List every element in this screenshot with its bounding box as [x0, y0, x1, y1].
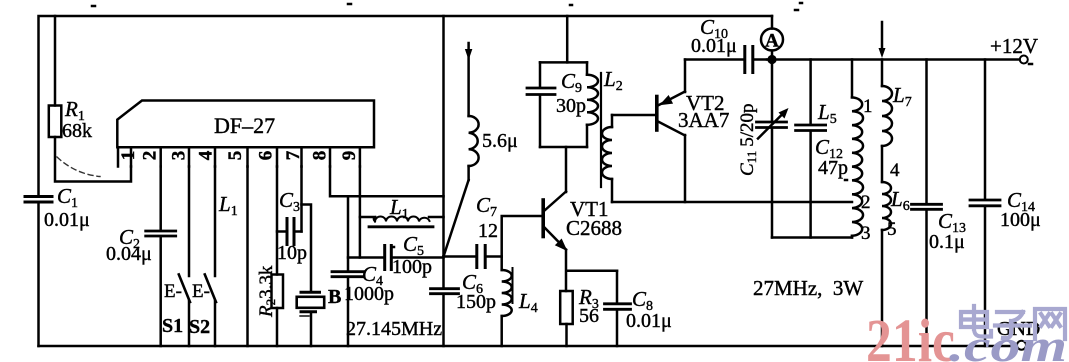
svg-text:0.01μ: 0.01μ: [626, 310, 672, 332]
svg-text:L5: L5: [817, 100, 837, 127]
resistor R3: [560, 291, 573, 324]
wire pin7 hook to crystal: [302, 205, 312, 292]
inductor L6: [882, 182, 891, 230]
wire L7 to L6, tap 4: [881, 146, 884, 182]
svg-text:21ic: 21ic: [866, 308, 955, 362]
svg-text:+12V: +12V: [990, 34, 1038, 58]
wire R1 to pin 1: [55, 137, 131, 182]
wire VT1 collector riser: [565, 147, 568, 192]
transformer L2 secondary: [611, 115, 614, 127]
IC DF-27 body: [117, 101, 374, 148]
svg-text:E-: E-: [164, 281, 182, 302]
wire crystal to ground: [310, 313, 313, 346]
wire ground bottom rail: [39, 345, 1017, 348]
svg-text:L1: L1: [389, 195, 409, 222]
svg-text:12: 12: [478, 220, 498, 242]
wire C7 node up to VT1 base: [502, 216, 542, 257]
wire L2 secondary to VT2 base: [612, 114, 655, 117]
node junction dot: [767, 55, 776, 64]
wire +12V rail: [767, 58, 1020, 61]
capacitor C11 variable: [771, 60, 774, 238]
wire VT1 emitter down: [566, 250, 617, 291]
wire C9/L2 tank top and bottom: [540, 62, 587, 147]
transistor VT1 C2688: [543, 192, 566, 251]
resistor R1: [49, 106, 62, 138]
svg-text:0.01μ: 0.01μ: [44, 209, 90, 231]
svg-text:C7: C7: [476, 193, 497, 220]
svg-text:10p: 10p: [277, 242, 307, 264]
wire pin 8 to tank top: [330, 167, 444, 257]
svg-text:9: 9: [339, 151, 360, 161]
wire top +12V rail from ammeter to left edge: [39, 16, 773, 195]
svg-text:3: 3: [168, 151, 189, 161]
svg-text:68k: 68k: [62, 120, 92, 142]
resistor R2: [272, 275, 284, 309]
svg-text:L4: L4: [518, 289, 538, 316]
svg-text:C2688: C2688: [566, 216, 622, 240]
svg-text:27MHz, 3W: 27MHz, 3W: [753, 276, 863, 300]
+12V terminal: [1020, 56, 1028, 64]
svg-text:L6: L6: [890, 187, 910, 214]
svg-text:E-: E-: [192, 281, 210, 302]
wire L6 to ground: [881, 230, 884, 346]
wire VT2 emitter riser to C10: [684, 60, 687, 93]
switch S2 arm: [205, 275, 216, 303]
transistor VT2 3AA7: [657, 92, 685, 136]
svg-text:30p: 30p: [556, 95, 586, 117]
capacitor C2: [146, 231, 176, 236]
capacitor C3: [277, 230, 302, 233]
svg-text:100μ: 100μ: [1000, 209, 1041, 231]
capacitor C14: [984, 60, 987, 347]
wire VT2 collector riser to output: [684, 135, 687, 202]
wire pin 7: [300, 167, 303, 232]
wire diagonal choke to tank node: [444, 180, 469, 257]
svg-text:C3: C3: [279, 188, 300, 215]
wire pin 2: [159, 167, 162, 347]
svg-text:S2: S2: [189, 316, 210, 338]
scan specks: [92, 3, 1032, 247]
capacitor C7: [444, 255, 502, 258]
svg-text:3AA7: 3AA7: [678, 108, 729, 132]
svg-text:B: B: [328, 286, 341, 308]
ammeter A: [761, 16, 783, 56]
svg-text:1: 1: [863, 96, 873, 117]
svg-text:0.04μ: 0.04μ: [106, 243, 152, 265]
svg-text:27.145MHz: 27.145MHz: [346, 318, 442, 340]
svg-text:S1: S1: [162, 315, 183, 337]
wire pin 3 lower: [188, 301, 191, 346]
svg-text:2: 2: [139, 151, 160, 161]
svg-text:A: A: [765, 31, 779, 52]
svg-text:4: 4: [890, 160, 900, 181]
svg-text:2: 2: [861, 192, 871, 213]
svg-text:C9: C9: [561, 69, 582, 96]
L4 core line: [512, 268, 514, 303]
inductor 5.6uH choke with feed arrow: [467, 43, 470, 116]
IC pin box dividers: [118, 147, 360, 166]
svg-text:0.01μ: 0.01μ: [691, 35, 737, 57]
svg-text:3: 3: [861, 223, 871, 244]
svg-text:L1: L1: [218, 192, 238, 219]
wire pin 6: [276, 167, 279, 347]
svg-text:L2: L2: [603, 67, 623, 94]
crystal B: [297, 292, 325, 316]
wire R3 to ground: [565, 324, 568, 346]
switch S1 arm: [179, 275, 190, 303]
inductor L5 tapped coil: [851, 60, 854, 98]
wire top rail riser to C9 tank: [566, 16, 569, 62]
wire L7 feed arrow: [881, 22, 884, 50]
svg-text:6: 6: [255, 151, 276, 161]
capacitor C10: [685, 58, 768, 61]
capacitor C9: [539, 62, 542, 147]
svg-text:0.1μ: 0.1μ: [929, 231, 965, 253]
svg-text:C115/20p: C115/20p: [737, 104, 759, 177]
inductor L7: [881, 60, 884, 87]
wire pin 3 upper: [188, 167, 191, 277]
inductor L1: [360, 217, 444, 227]
wire top rail riser to tank: [442, 16, 445, 196]
wire output line to L5 tap 2: [612, 201, 852, 204]
watermark dianziwang: [961, 306, 1065, 339]
svg-text:C1: C1: [57, 184, 78, 211]
svg-text:5.6μ: 5.6μ: [482, 130, 518, 152]
capacitor C4 branch: [347, 196, 350, 346]
capacitor C5: [348, 256, 444, 259]
capacitor C6: [442, 257, 445, 347]
transformer L2 primary: [586, 62, 589, 147]
svg-text:4: 4: [195, 150, 216, 160]
svg-text:56: 56: [579, 305, 599, 327]
wire pin 9 tank left: [359, 167, 362, 258]
svg-text:7: 7: [283, 150, 304, 160]
transformer L2 core: [600, 73, 602, 187]
svg-text:5: 5: [887, 219, 897, 240]
capacitor C12: [809, 60, 812, 238]
wire left edge below C1 to ground rail: [37, 204, 40, 347]
wire R1 branch from top rail: [54, 16, 57, 106]
svg-text:5: 5: [225, 151, 246, 161]
svg-text:1000p: 1000p: [344, 283, 394, 305]
svg-text:100p: 100p: [392, 256, 432, 278]
svg-text:C5: C5: [403, 232, 424, 259]
capacitor C8: [616, 271, 619, 346]
inductor L4: [500, 257, 503, 271]
svg-text:8: 8: [309, 151, 330, 161]
wire pin 5: [246, 167, 249, 347]
svg-text:47p: 47p: [818, 157, 848, 179]
wire matching network bottom: [772, 236, 852, 239]
svg-text:1: 1: [118, 151, 139, 161]
scan fold artifact: [57, 157, 100, 177]
wire pin 4 lower: [214, 301, 217, 346]
capacitor C1: [25, 197, 52, 203]
svg-text:L7: L7: [892, 83, 912, 110]
capacitor C13: [925, 60, 928, 347]
svg-text:150p: 150p: [456, 291, 496, 313]
svg-text:DF–27: DF–27: [214, 113, 275, 138]
svg-text:R23.3k: R23.3k: [256, 265, 278, 318]
wire pin 4 upper: [214, 167, 217, 277]
